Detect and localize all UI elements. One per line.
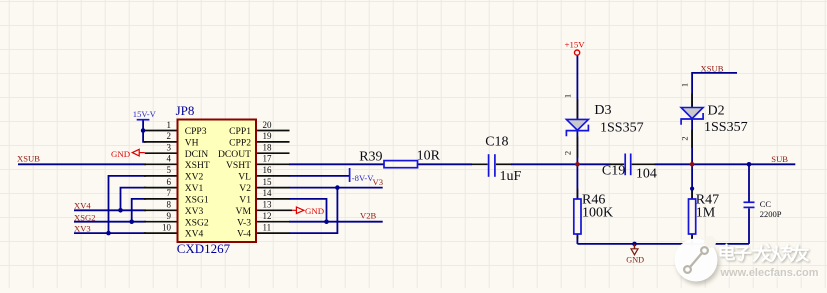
svg-text:XV4: XV4: [185, 229, 204, 240]
svg-text:C19: C19: [602, 164, 625, 179]
svg-text:16: 16: [263, 165, 273, 175]
svg-text:V2: V2: [239, 183, 251, 194]
svg-text:-8V-V: -8V-V: [352, 173, 374, 183]
svg-text:13: 13: [263, 200, 273, 210]
svg-text:DCIN: DCIN: [185, 149, 209, 160]
svg-text:CPP1: CPP1: [229, 126, 251, 137]
svg-text:R39: R39: [359, 150, 382, 165]
svg-text:11: 11: [263, 222, 272, 232]
svg-text:GND: GND: [305, 206, 324, 216]
svg-text:12: 12: [263, 211, 272, 221]
svg-text:D3: D3: [594, 103, 611, 118]
svg-text:1: 1: [167, 120, 172, 130]
svg-text:D2: D2: [708, 103, 725, 118]
svg-text:8: 8: [167, 200, 172, 210]
svg-text:7: 7: [167, 188, 172, 198]
svg-text:GND: GND: [626, 256, 644, 265]
svg-text:V2B: V2B: [360, 211, 377, 221]
svg-text:V-3: V-3: [237, 217, 251, 228]
svg-text:CPP2: CPP2: [229, 138, 251, 149]
svg-text:GND: GND: [111, 149, 130, 159]
svg-text:17: 17: [263, 154, 273, 164]
svg-text:XSUB: XSUB: [17, 153, 40, 163]
svg-text:1: 1: [680, 83, 690, 87]
svg-text:10R: 10R: [417, 149, 441, 164]
svg-text:6: 6: [167, 177, 172, 187]
svg-text:VL: VL: [238, 172, 251, 183]
svg-text:V-4: V-4: [237, 229, 251, 240]
svg-text:2: 2: [167, 131, 172, 141]
svg-text:1SS357: 1SS357: [600, 121, 644, 136]
svg-text:15: 15: [263, 177, 273, 187]
svg-text:VM: VM: [236, 206, 252, 217]
svg-text:10: 10: [162, 222, 172, 232]
svg-text:CPP3: CPP3: [185, 126, 207, 137]
svg-text:XSG1: XSG1: [185, 195, 209, 206]
svg-text:XSHT: XSHT: [185, 160, 210, 171]
svg-text:15V-V: 15V-V: [133, 109, 157, 119]
svg-text:2: 2: [563, 151, 573, 155]
svg-text:www.elecfans.com: www.elecfans.com: [720, 267, 819, 279]
svg-text:104: 104: [636, 167, 657, 182]
svg-text:XSUB: XSUB: [701, 63, 724, 73]
svg-text:XSG2: XSG2: [185, 217, 209, 228]
svg-text:XV2: XV2: [185, 172, 204, 183]
svg-text:SUB: SUB: [771, 154, 788, 164]
svg-text:2: 2: [680, 136, 690, 140]
svg-text:XV3: XV3: [185, 206, 204, 217]
svg-text:1: 1: [563, 94, 573, 98]
svg-text:CC: CC: [760, 199, 772, 209]
svg-text:+15V: +15V: [565, 40, 586, 50]
svg-text:1uF: 1uF: [500, 169, 522, 184]
svg-text:XV4: XV4: [74, 200, 91, 210]
svg-text:19: 19: [263, 131, 273, 141]
svg-text:3: 3: [167, 143, 172, 153]
svg-text:XV3: XV3: [74, 223, 91, 233]
svg-text:4: 4: [167, 154, 172, 164]
svg-text:V1: V1: [239, 195, 251, 206]
svg-text:XSG2: XSG2: [74, 213, 96, 223]
svg-text:14: 14: [263, 188, 273, 198]
svg-text:1SS357: 1SS357: [704, 120, 748, 135]
svg-text:JP8: JP8: [176, 103, 195, 118]
svg-text:1M: 1M: [696, 206, 716, 221]
svg-text:V3: V3: [373, 177, 384, 187]
svg-text:9: 9: [167, 211, 172, 221]
svg-text:2200P: 2200P: [760, 209, 782, 219]
svg-text:VSHT: VSHT: [226, 160, 251, 171]
svg-text:100K: 100K: [582, 206, 613, 221]
svg-text:18: 18: [263, 143, 273, 153]
svg-text:20: 20: [263, 120, 273, 130]
svg-text:DCOUT: DCOUT: [218, 149, 251, 160]
svg-text:5: 5: [167, 165, 172, 175]
svg-text:XV1: XV1: [185, 183, 204, 194]
svg-text:VH: VH: [185, 138, 199, 149]
svg-text:C18: C18: [485, 134, 508, 149]
svg-text:CXD1267: CXD1267: [177, 241, 231, 256]
